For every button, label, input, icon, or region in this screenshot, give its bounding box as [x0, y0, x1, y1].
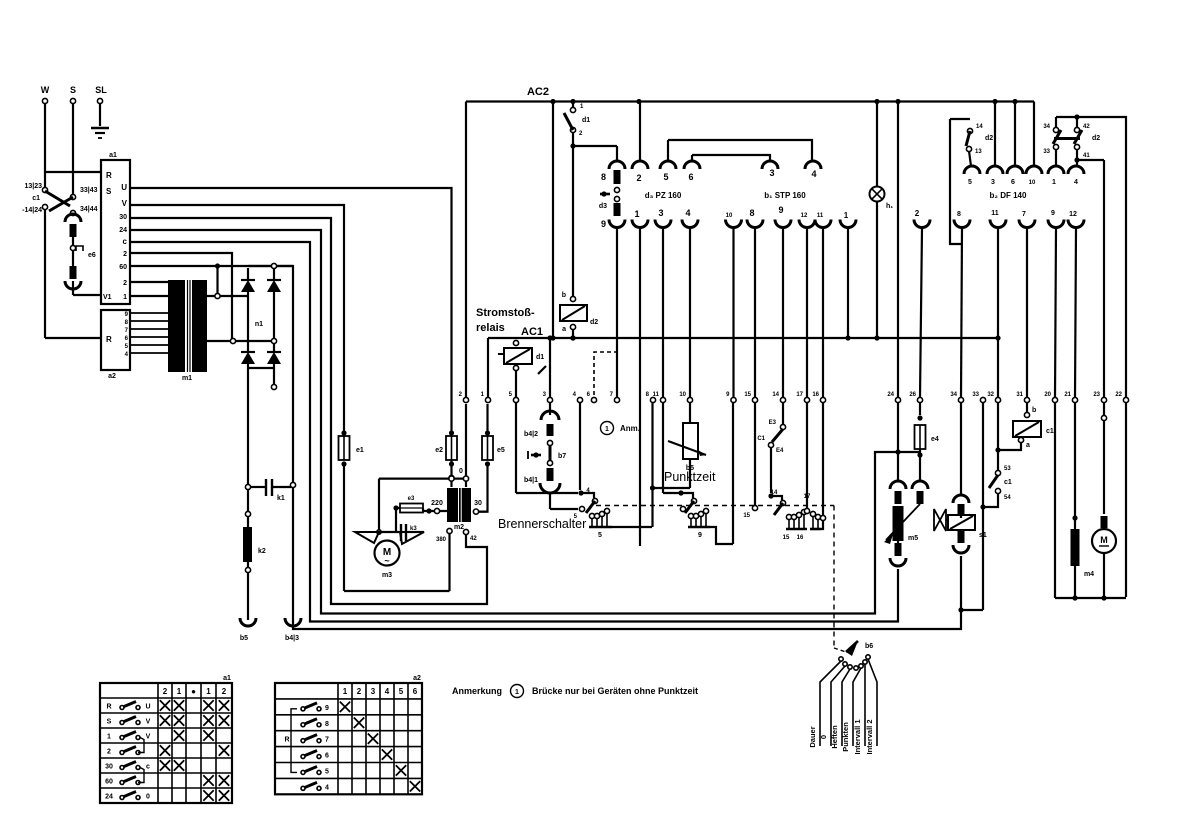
wire 380-tap	[447, 528, 452, 533]
connector m5 top	[890, 481, 906, 489]
connector s1 top	[953, 495, 969, 503]
motor m3	[375, 541, 400, 566]
wire AC2 left drop	[465, 102, 467, 398]
svg-text:1: 1	[177, 687, 182, 696]
svg-text:20: 20	[1044, 392, 1051, 398]
connector arc 8c	[954, 220, 970, 228]
svg-text:2: 2	[915, 209, 920, 218]
svg-text:Anm.: Anm.	[620, 424, 640, 433]
svg-text:6: 6	[413, 687, 418, 696]
wire d1 to d3 plug	[572, 132, 574, 299]
svg-text:34|44: 34|44	[80, 206, 98, 213]
fuse e1	[339, 436, 350, 460]
relay d1	[513, 340, 518, 345]
connector arc 5	[660, 161, 676, 169]
svg-text:16: 16	[812, 392, 819, 398]
svg-text:220: 220	[431, 500, 443, 507]
switch 33/43-34/44	[70, 194, 75, 199]
connector s1 bottom	[958, 531, 965, 543]
svg-text:6: 6	[1011, 179, 1015, 186]
diode n1 bottom-right	[267, 352, 281, 364]
svg-text:9: 9	[325, 705, 329, 712]
wire 15-line down	[754, 403, 756, 505]
svg-text:relais: relais	[476, 322, 505, 334]
svg-text:1: 1	[107, 734, 111, 741]
svg-text:5: 5	[325, 768, 329, 775]
svg-text:30: 30	[119, 214, 127, 221]
wire 30	[130, 218, 487, 604]
svg-text:12: 12	[801, 213, 808, 219]
connector arc 8b	[747, 220, 763, 228]
svg-text:32: 32	[987, 392, 994, 398]
svg-text:Heften: Heften	[830, 725, 839, 749]
svg-text:M: M	[1100, 535, 1108, 545]
svg-text:b7: b7	[558, 453, 566, 460]
svg-text:11: 11	[653, 392, 660, 398]
svg-text:~: ~	[384, 556, 389, 566]
wire 220	[423, 510, 447, 512]
svg-text:b4|2: b4|2	[524, 431, 538, 438]
svg-text:V: V	[146, 719, 151, 726]
switch group 14	[771, 496, 782, 500]
svg-text:5: 5	[968, 179, 972, 186]
connector arc 5c	[964, 166, 980, 174]
svg-text:17: 17	[796, 392, 803, 398]
svg-text:21: 21	[1064, 392, 1071, 398]
wire 32 down	[997, 403, 999, 470]
connector arc 7c	[1019, 220, 1035, 228]
svg-text:m5: m5	[908, 535, 918, 542]
svg-text:5: 5	[399, 687, 404, 696]
svg-text:S: S	[70, 85, 76, 95]
wire W down to a2	[44, 209, 46, 338]
ground	[91, 127, 109, 130]
svg-text:24: 24	[119, 227, 127, 234]
wire AC1 left drop	[487, 338, 489, 397]
connector arc 2c	[914, 220, 930, 228]
wire AC2 end drop	[1033, 102, 1035, 167]
svg-text:V1: V1	[103, 294, 112, 301]
transformer m2	[447, 488, 458, 522]
svg-text:3: 3	[769, 168, 774, 178]
svg-text:2: 2	[163, 687, 168, 696]
wire 33 down	[982, 403, 984, 610]
svg-text:Brennerschalter: Brennerschalter	[498, 517, 586, 531]
wire U	[130, 188, 452, 432]
connector arc 11	[815, 220, 831, 228]
motor m5	[893, 506, 904, 541]
svg-text:-14|24: -14|24	[22, 207, 42, 214]
switch b6	[846, 641, 858, 656]
svg-text:3: 3	[991, 179, 995, 186]
svg-text:33: 33	[972, 392, 979, 398]
svg-text:U: U	[121, 183, 127, 192]
motor m4	[1103, 403, 1105, 514]
resistor m4r	[1071, 529, 1080, 566]
switch group 9 blade	[681, 493, 693, 498]
fuse e4	[919, 403, 921, 415]
connector arc 6c	[1007, 166, 1023, 174]
svg-text:11: 11	[991, 210, 999, 217]
svg-text:R: R	[284, 737, 289, 744]
svg-text:d1: d1	[536, 354, 544, 361]
switch d2 right	[1056, 117, 1126, 136]
switch c1 53/54	[995, 470, 1000, 475]
wire AC2 drop 995	[994, 102, 996, 167]
connector arc 11c	[990, 220, 1006, 228]
svg-text:m4: m4	[1084, 571, 1094, 578]
svg-text:0: 0	[819, 735, 828, 739]
svg-text:30: 30	[474, 500, 482, 507]
table a2 grid	[275, 683, 422, 794]
relay d2 coil	[570, 296, 575, 301]
connector arc 6	[684, 161, 700, 169]
svg-text:E4: E4	[776, 448, 784, 454]
impulse symbol e6	[76, 246, 83, 251]
wires a2 to m1	[130, 312, 168, 314]
svg-text:22: 22	[1115, 392, 1122, 398]
svg-text:a: a	[562, 326, 566, 333]
svg-text:b6: b6	[865, 643, 873, 650]
svg-text:14: 14	[976, 124, 983, 130]
svg-text:4: 4	[325, 784, 329, 791]
connector d3 plug bottom	[614, 203, 621, 216]
svg-text:16: 16	[797, 535, 804, 541]
svg-text:7: 7	[1022, 211, 1026, 218]
mech dashed line	[596, 505, 834, 507]
svg-text:R: R	[106, 704, 111, 711]
svg-text:1: 1	[605, 426, 609, 433]
svg-text:Punktzeit: Punktzeit	[664, 470, 716, 484]
wire 11-line down	[662, 403, 664, 493]
switch group 17	[806, 403, 808, 508]
note Anm	[601, 422, 614, 435]
svg-text:Intervall 1: Intervall 1	[853, 719, 862, 754]
svg-text:5: 5	[598, 532, 602, 539]
svg-text:54: 54	[1004, 495, 1011, 501]
svg-text:E3: E3	[769, 420, 777, 426]
wire 24 feed	[897, 102, 899, 398]
wire 24 down	[897, 403, 899, 482]
wire bridge bottom rail	[248, 367, 274, 369]
svg-text:2: 2	[123, 280, 127, 287]
svg-text:1: 1	[123, 294, 127, 301]
svg-text:d3: d3	[599, 203, 607, 210]
svg-text:AC2: AC2	[527, 86, 549, 98]
terminal S	[70, 98, 75, 103]
svg-text:24: 24	[105, 794, 113, 801]
svg-text:b: b	[1032, 407, 1036, 414]
svg-text:42: 42	[1083, 124, 1090, 130]
svg-text:m3: m3	[382, 572, 392, 579]
svg-text:7: 7	[325, 737, 329, 744]
wire 60	[130, 266, 961, 629]
wire 5-line down	[515, 403, 517, 493]
wire V	[130, 205, 344, 432]
connector arc 3c	[987, 166, 1003, 174]
connector arc 1	[632, 220, 648, 228]
switch b6 contacts	[839, 657, 843, 661]
connector b4/2	[549, 338, 551, 397]
switch c1 13/23-14/24	[42, 187, 47, 192]
valve s1	[934, 509, 946, 531]
svg-text:8: 8	[749, 208, 754, 218]
switch c1 E3/E4	[782, 403, 784, 424]
svg-text:d2: d2	[1092, 135, 1100, 142]
svg-text:b: b	[562, 292, 566, 299]
svg-text:23: 23	[1093, 392, 1100, 398]
svg-text:k2: k2	[258, 548, 266, 555]
svg-text:a2: a2	[108, 373, 116, 380]
bridge 5-4	[668, 140, 812, 160]
svg-text:380: 380	[436, 537, 447, 543]
svg-text:Brücke nur bei Geräten ohne Pu: Brücke nur bei Geräten ohne Punktzeit	[532, 686, 698, 696]
switch group 9 bar	[690, 518, 692, 527]
svg-text:S: S	[106, 187, 112, 196]
svg-text:9: 9	[1051, 210, 1055, 217]
wire punktzeit link	[653, 487, 691, 489]
svg-text:k1: k1	[277, 495, 285, 502]
wire term2 down	[465, 404, 467, 476]
svg-text:8: 8	[957, 211, 961, 218]
wire 34 down s1	[960, 403, 962, 496]
svg-text:2: 2	[107, 749, 111, 756]
wire m1 secondary lower	[207, 340, 274, 342]
svg-text:V: V	[122, 199, 128, 208]
svg-text:b4|3: b4|3	[285, 635, 299, 642]
connector e6 upper socket	[65, 214, 81, 222]
svg-text:33|43: 33|43	[80, 187, 98, 194]
svg-text:10: 10	[679, 392, 686, 398]
wire 2 drop	[130, 253, 232, 341]
svg-text:6: 6	[325, 753, 329, 760]
terminal row circles	[463, 397, 468, 402]
svg-text:a1: a1	[109, 152, 117, 159]
svg-text:C1: C1	[757, 436, 765, 442]
wire 23 feed	[1103, 160, 1105, 397]
svg-text:10: 10	[726, 213, 733, 219]
svg-text:e4: e4	[931, 436, 939, 443]
wire s1 down	[958, 607, 963, 612]
svg-text:n1: n1	[255, 321, 263, 328]
svg-text:1: 1	[1052, 179, 1056, 186]
connector arc 3	[762, 161, 778, 169]
svg-text:S: S	[107, 719, 112, 726]
wire 22 feed	[1125, 136, 1127, 597]
connector arc 3b	[655, 220, 671, 228]
diode n1 top-right	[267, 280, 281, 292]
potentiometer b5	[689, 403, 691, 423]
svg-text:11: 11	[817, 213, 824, 219]
wire AC2 drop 1015	[1014, 102, 1016, 167]
svg-text:m2: m2	[454, 524, 464, 531]
svg-text:e5: e5	[497, 447, 505, 454]
svg-text:13: 13	[975, 149, 982, 155]
switch b6 fan wires	[820, 661, 841, 746]
wire term9 riser	[732, 403, 734, 544]
svg-text:10: 10	[1029, 180, 1036, 186]
switch d1 top	[572, 102, 574, 109]
svg-text:2: 2	[123, 251, 127, 258]
svg-text:b4|1: b4|1	[524, 477, 538, 484]
svg-text:2: 2	[357, 687, 362, 696]
svg-text:Intervall 2: Intervall 2	[865, 719, 874, 754]
capacitor k1	[245, 484, 250, 489]
svg-text:e6: e6	[88, 252, 96, 259]
svg-text:c: c	[123, 237, 128, 246]
svg-text:60: 60	[119, 264, 127, 271]
svg-text:c1: c1	[1046, 428, 1054, 435]
svg-text:24: 24	[887, 392, 894, 398]
svg-text:a1: a1	[223, 675, 231, 682]
fuse e2	[446, 436, 457, 460]
terminal W	[42, 98, 47, 103]
connector arc 1b	[840, 220, 856, 228]
svg-text:4: 4	[1074, 179, 1078, 186]
svg-text:4: 4	[811, 169, 816, 179]
svg-text:33: 33	[1043, 149, 1050, 155]
switch group 5 bar	[591, 518, 593, 527]
svg-text:b5: b5	[240, 635, 248, 642]
svg-text:14: 14	[771, 490, 778, 496]
svg-text:d2: d2	[590, 319, 598, 326]
svg-text:b₂ DF 140: b₂ DF 140	[990, 191, 1027, 200]
svg-text:h₁: h₁	[886, 203, 893, 210]
svg-text:4: 4	[685, 208, 690, 218]
jumper note bridge	[594, 352, 616, 395]
svg-text:d₃ PZ 160: d₃ PZ 160	[645, 191, 682, 200]
svg-text:b₁ STP 160: b₁ STP 160	[764, 191, 806, 200]
connector d3 plug top	[616, 146, 618, 162]
transformer m1	[168, 280, 185, 372]
svg-text:e2: e2	[435, 447, 443, 454]
wire S to a1 pin V1	[72, 281, 74, 295]
svg-text:30: 30	[105, 764, 113, 771]
switch group 5 blade	[592, 498, 597, 503]
terminal SL	[97, 98, 102, 103]
svg-text:53: 53	[1004, 466, 1011, 472]
connector arc 10	[726, 220, 742, 228]
wire term8 riser	[651, 403, 653, 527]
connector arc 2	[632, 161, 648, 169]
table a2 rows	[301, 707, 305, 711]
table a1 grid	[100, 683, 232, 803]
connector arc 1c	[1048, 166, 1064, 174]
wire 20 down	[1054, 403, 1056, 598]
svg-text:c1: c1	[1004, 479, 1012, 486]
wire 42-tap	[463, 529, 468, 534]
svg-text:12: 12	[1069, 211, 1077, 218]
wire m1 secondary upper	[207, 295, 248, 297]
wire 24	[130, 230, 920, 614]
svg-text:a: a	[1026, 442, 1030, 449]
wire b4/1 to contact 5	[550, 508, 578, 510]
wire e1 loop bottom2	[344, 590, 450, 592]
svg-text:42: 42	[470, 536, 477, 542]
AC1 rail	[488, 337, 998, 339]
svg-text:d1: d1	[582, 117, 590, 124]
svg-text:3: 3	[371, 687, 376, 696]
svg-text:13|23: 13|23	[24, 183, 42, 190]
connector m5 bottom	[895, 543, 902, 556]
svg-text:c: c	[146, 764, 150, 771]
svg-text:5: 5	[663, 172, 668, 182]
svg-text:1: 1	[343, 687, 348, 696]
node bridge top rail	[248, 265, 293, 267]
relay c1	[1026, 403, 1028, 412]
contact b7	[547, 440, 552, 445]
svg-text:31: 31	[1016, 392, 1023, 398]
svg-text:a2: a2	[413, 675, 421, 682]
svg-text:34: 34	[950, 392, 957, 398]
svg-text:R: R	[106, 335, 112, 344]
connector arc 12c	[1068, 220, 1084, 228]
terminal b4/3	[285, 618, 301, 626]
svg-text:SL: SL	[95, 85, 107, 95]
AC2 rail	[466, 100, 1034, 102]
lamp h1	[876, 102, 878, 188]
svg-text:15: 15	[744, 392, 751, 398]
contact d3	[614, 187, 619, 192]
rail bottom right	[1055, 597, 1126, 599]
svg-text:4: 4	[385, 687, 390, 696]
svg-text:26: 26	[909, 392, 916, 398]
wire c	[130, 242, 898, 622]
wire 34 feed	[961, 228, 962, 397]
svg-text:m1: m1	[182, 375, 192, 382]
svg-text:AC1: AC1	[521, 326, 543, 338]
connector b4/1	[547, 468, 554, 481]
svg-text:R: R	[106, 171, 112, 180]
svg-text:8: 8	[325, 721, 329, 728]
terminal b5	[240, 618, 256, 626]
wire S plug link	[72, 237, 74, 268]
fuse e3	[393, 505, 398, 510]
svg-text:1: 1	[844, 211, 849, 220]
svg-text:2: 2	[222, 687, 227, 696]
connector arc 4c	[1068, 166, 1084, 174]
svg-text:●: ●	[191, 687, 196, 696]
capacitor k3	[400, 524, 402, 541]
svg-text:41: 41	[1083, 153, 1090, 159]
connector arc 4	[805, 161, 821, 169]
connector arc 4b	[682, 220, 698, 228]
block a1	[101, 160, 130, 304]
diode n1 top-left	[241, 280, 255, 292]
svg-text:9: 9	[601, 219, 606, 229]
fuse e5	[482, 436, 493, 460]
wire 21 down	[1074, 403, 1076, 529]
svg-text:Stromstoß-: Stromstoß-	[476, 307, 535, 319]
svg-text:9: 9	[698, 532, 702, 539]
svg-text:14: 14	[772, 392, 779, 398]
svg-text:V: V	[146, 734, 151, 741]
wire 30-tap	[473, 509, 478, 514]
svg-text:d2: d2	[985, 135, 993, 142]
svg-text:U: U	[145, 704, 150, 711]
svg-text:1: 1	[206, 687, 211, 696]
resistor k2	[243, 527, 252, 562]
wire 1 to m1	[130, 295, 168, 297]
wire AC2-AC1 link	[552, 102, 554, 339]
svg-text:e3: e3	[408, 496, 415, 502]
connector arc 9b	[775, 220, 791, 228]
wire W to a1 pin R	[45, 171, 101, 173]
bridge 6-3	[692, 155, 770, 160]
svg-text:Anmerkung: Anmerkung	[452, 686, 502, 696]
svg-text:c1: c1	[32, 195, 40, 202]
wire 16-line down	[822, 403, 824, 516]
